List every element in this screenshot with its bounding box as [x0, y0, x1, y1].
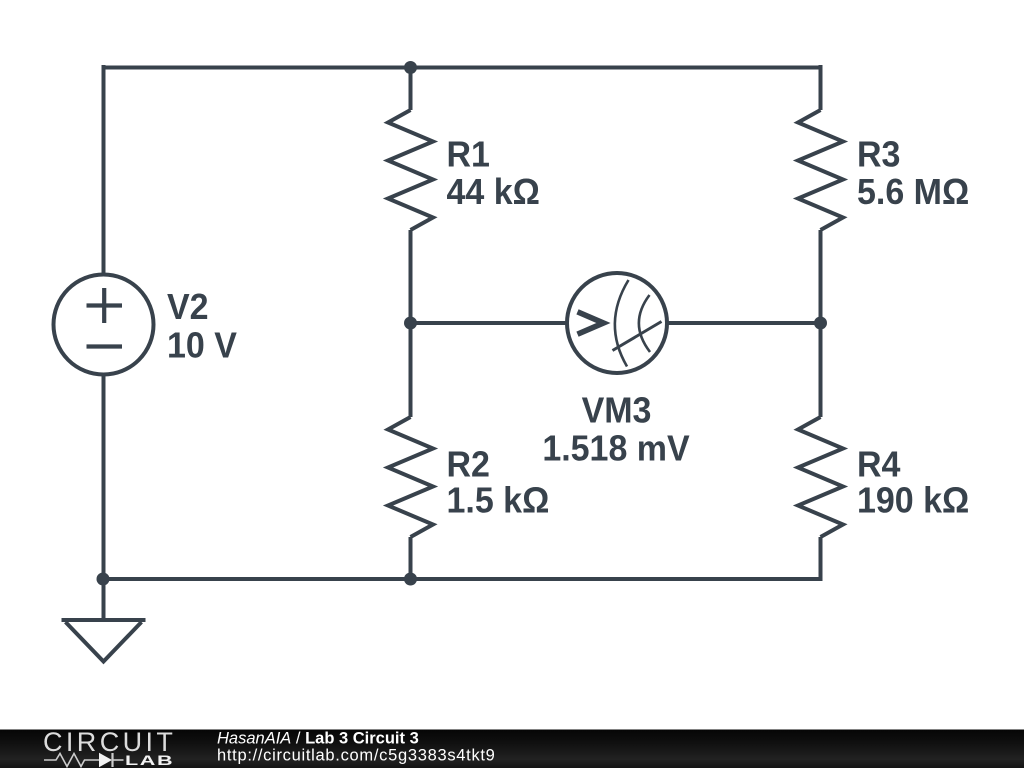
svg-text:http://circuitlab.com/c5g3383s: http://circuitlab.com/c5g3383s4tkt9 — [217, 747, 496, 765]
svg-text:LAB: LAB — [125, 753, 174, 768]
wire R1 top stub — [409, 68, 413, 111]
svg-text:5.6 MΩ: 5.6 MΩ — [857, 172, 969, 212]
wire R3 bottom stub — [819, 230, 823, 323]
svg-text:R1: R1 — [447, 134, 490, 174]
junction top node — [404, 61, 417, 74]
resistor R2 1.5 kOhm zigzag — [388, 417, 433, 537]
resistor R4 190 kOhm zigzag — [798, 417, 843, 537]
wire R2 top stub — [409, 323, 413, 417]
svg-text:R2: R2 — [447, 444, 490, 484]
svg-text:VM3: VM3 — [582, 390, 652, 430]
wire bottom rail — [102, 577, 823, 581]
wire R2 bottom stub — [409, 537, 413, 579]
resistor R1 44 kOhm zigzag — [388, 110, 433, 230]
resistor R3 5.6 MOhm zigzag — [798, 110, 843, 230]
CircuitLab logo resistor-diode drawing — [44, 753, 124, 767]
voltage source V2 circle — [54, 275, 154, 375]
wire R4 top stub — [819, 323, 823, 417]
wire top rail — [102, 66, 823, 70]
svg-text:44 kΩ: 44 kΩ — [447, 172, 540, 212]
junction mid-right node — [814, 317, 827, 330]
svg-text:R4: R4 — [857, 444, 901, 484]
wire mid rail right (voltmeter to right branch) — [666, 321, 823, 325]
svg-text:V2: V2 — [167, 287, 209, 327]
junction mid-left node — [404, 317, 417, 330]
svg-text:1.518 mV: 1.518 mV — [542, 428, 690, 468]
wire R1 bottom stub — [409, 230, 413, 323]
wire mid rail left (node to voltmeter) — [411, 321, 569, 325]
wire V2 bottom to ground stub — [102, 375, 106, 621]
wire R4 bottom stub — [819, 537, 823, 581]
CircuitLab logo LAB — [125, 753, 174, 768]
svg-text:R3: R3 — [857, 134, 900, 174]
junction bottom-left node — [97, 573, 110, 586]
voltmeter VM3 — [567, 273, 667, 373]
svg-text:1.5 kΩ: 1.5 kΩ — [447, 480, 550, 520]
junction bottom-mid node — [404, 573, 417, 586]
svg-text:HasanAIA / Lab 3 Circuit 3: HasanAIA / Lab 3 Circuit 3 — [217, 730, 419, 748]
ground — [62, 620, 146, 662]
wire R3 top stub — [819, 65, 823, 110]
wire left vertical from top rail to V2 top — [102, 65, 106, 275]
svg-text:190 kΩ: 190 kΩ — [857, 480, 969, 520]
svg-text:10 V: 10 V — [167, 325, 237, 365]
